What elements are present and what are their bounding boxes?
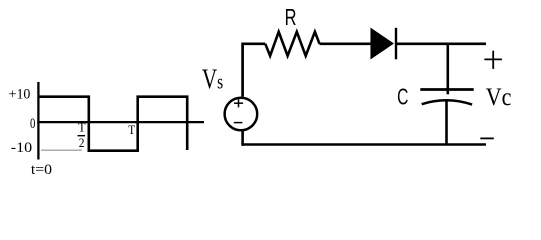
svg-text:C: C xyxy=(397,85,408,111)
svg-text:2: 2 xyxy=(79,136,85,151)
wire: capacitor bottom to bottom wire xyxy=(445,101,448,146)
svg-text:Vc: Vc xyxy=(486,84,512,112)
svg-text:t=0: t=0 xyxy=(31,162,52,177)
square wave trace xyxy=(38,97,187,151)
wire: source bottom stub xyxy=(241,130,244,146)
label T/2 (fraction) xyxy=(78,120,87,150)
capacitor C top plate xyxy=(420,88,473,91)
capacitor C bottom plate (curved) xyxy=(422,100,472,104)
svg-text:-10: -10 xyxy=(11,139,33,155)
wire: top-left corner from source up to resistor xyxy=(243,44,266,97)
svg-text:T: T xyxy=(128,122,136,137)
svg-text:R: R xyxy=(285,5,297,30)
wire: resistor to diode xyxy=(320,42,372,45)
output - terminal xyxy=(480,137,494,139)
svg-text:0: 0 xyxy=(30,114,36,131)
-10 reference thin line xyxy=(41,149,82,151)
diode D1 xyxy=(371,28,396,60)
wire: diode to top-right end xyxy=(396,42,486,45)
bottom return wire xyxy=(242,143,487,146)
waveform vertical axis xyxy=(37,82,39,160)
output + terminal xyxy=(484,51,502,69)
wire: capacitor branch drop from top wire xyxy=(446,44,449,95)
voltage source Vs (circle with polarity) xyxy=(225,98,258,131)
svg-text:Vs: Vs xyxy=(202,65,223,96)
resistor R xyxy=(265,32,319,56)
waveform horizontal time axis xyxy=(37,121,204,123)
svg-text:+10: +10 xyxy=(9,86,31,103)
svg-text:T: T xyxy=(78,120,86,134)
